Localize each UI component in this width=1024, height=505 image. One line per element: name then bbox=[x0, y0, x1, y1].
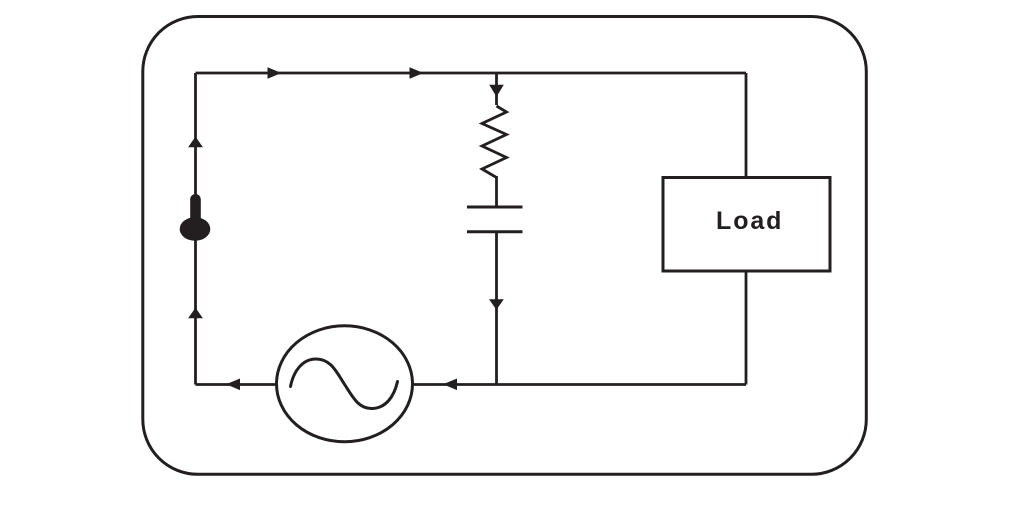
wire load branch lower bbox=[745, 271, 748, 385]
wire load branch upper bbox=[745, 73, 748, 178]
svg-text:Load: Load bbox=[716, 207, 783, 235]
capacitor C top plate bbox=[467, 206, 523, 209]
capacitor C bottom plate bbox=[467, 230, 523, 233]
arrow middle-bottom (current direction) bbox=[489, 299, 504, 310]
arrow top-left (current direction) bbox=[268, 67, 282, 79]
AC source V1 bbox=[277, 326, 413, 442]
wire resistor to capacitor bbox=[495, 176, 498, 206]
node tap point (probe blob) bbox=[180, 194, 211, 241]
arrow bottom-middle (current direction) bbox=[443, 379, 457, 391]
wire top rail bbox=[196, 72, 747, 75]
arrow left-lower (current direction) bbox=[188, 308, 203, 318]
arrow left-upper (current direction) bbox=[188, 137, 203, 148]
wire left branch bbox=[194, 73, 197, 385]
AC source sine waveform bbox=[291, 359, 398, 409]
arrow top-middle (current direction) bbox=[410, 67, 424, 79]
load block bbox=[663, 178, 830, 272]
arrow bottom-left (current direction) bbox=[226, 379, 240, 391]
arrow middle-top (current direction) bbox=[489, 85, 504, 97]
wire bottom rail right segment bbox=[412, 383, 746, 386]
wire middle branch lower bbox=[495, 232, 498, 385]
wire bottom rail left segment bbox=[196, 383, 278, 386]
resistor R bbox=[482, 106, 507, 178]
wire middle branch upper bbox=[495, 73, 498, 105]
